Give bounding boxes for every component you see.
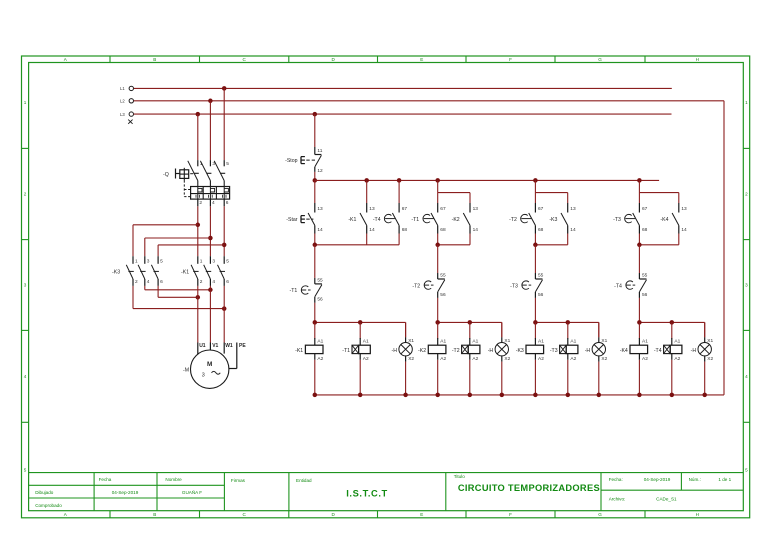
wire -T2 contact column (534, 193, 536, 203)
svg-text:13: 13 (570, 206, 576, 212)
wire branch -K2 tap down (437, 180, 439, 192)
svg-text:-K1: -K1 (348, 217, 356, 223)
bottom return bus (315, 394, 724, 396)
svg-text:Fecha: Fecha (99, 477, 112, 482)
svg-text:12: 12 (317, 168, 323, 174)
node bottom bus (533, 393, 538, 398)
svg-text:4: 4 (745, 374, 748, 379)
branch -K4 top sub-bus (639, 192, 678, 194)
svg-text:Firmas: Firmas (231, 478, 246, 483)
wire Star column (314, 180, 316, 203)
contactor K3 power contact pole 3-4 (144, 256, 146, 264)
svg-text:14: 14 (570, 227, 576, 233)
svg-text:56: 56 (642, 292, 648, 298)
svg-text:X2: X2 (707, 356, 713, 362)
svg-text:2: 2 (200, 279, 203, 285)
svg-text:55: 55 (440, 272, 446, 278)
svg-text:4: 4 (24, 374, 27, 379)
svg-text:68: 68 (642, 227, 648, 233)
svg-text:-K1: -K1 (295, 348, 303, 354)
svg-text:Núm.:: Núm.: (689, 477, 701, 482)
timer coil -T1 (359, 322, 361, 338)
contactor coil -K4 (638, 322, 640, 338)
wire T1 contact to coil bus (314, 303, 316, 323)
svg-text:F: F (509, 57, 512, 62)
svg-text:56: 56 (440, 292, 446, 298)
node bottom bus (313, 393, 318, 398)
wire to K3 pole3 (145, 237, 211, 239)
svg-text:6: 6 (160, 279, 163, 285)
svg-text:W1: W1 (225, 343, 233, 349)
breaker Q1 pole 2 contact (209, 160, 211, 166)
wire T4 contact to rejoin (398, 234, 400, 245)
svg-text:E: E (420, 57, 423, 62)
svg-text:14: 14 (681, 227, 687, 233)
svg-text:-T3: -T3 (550, 348, 558, 354)
svg-text:-T1: -T1 (290, 288, 298, 294)
pushbutton S0 -Stop (NC 11-12) (314, 147, 316, 155)
terminal L2 (129, 99, 133, 103)
wire K3 out4 (144, 286, 146, 290)
wire K1 contact column (366, 180, 368, 203)
svg-text:X2: X2 (504, 356, 510, 362)
svg-text:CIRCUITO TEMPORIZADORES: CIRCUITO TEMPORIZADORES (458, 483, 600, 493)
wire K1 out2 to motor U1 (197, 286, 199, 343)
svg-text:3: 3 (24, 283, 27, 288)
breaker Q1 thermal element pole 3 (223, 187, 225, 200)
terminal L1 (129, 86, 133, 90)
wire branch2 down (437, 245, 439, 273)
svg-text:L1: L1 (120, 86, 125, 91)
svg-text:A1: A1 (674, 339, 680, 345)
svg-text:14: 14 (473, 227, 479, 233)
svg-text:4: 4 (147, 279, 150, 285)
wire L2 to breaker (209, 101, 211, 160)
svg-text:Entidad: Entidad (296, 478, 312, 483)
contactor K1 power contact pole 3-4 (209, 256, 211, 264)
svg-text:X2: X2 (408, 356, 414, 362)
control bus wire (315, 179, 659, 181)
svg-text:Fecha:: Fecha: (609, 477, 623, 482)
svg-text:68: 68 (402, 227, 408, 233)
breaker Q1 pole 1 contact (197, 160, 199, 166)
svg-text:1: 1 (200, 259, 203, 265)
node tap K3 pole3 (208, 236, 213, 241)
svg-text:A2: A2 (570, 356, 576, 362)
breaker Q1 pole 3 lower pin (223, 199, 225, 206)
breaker Q1 thermal element pole 2 (209, 187, 211, 200)
node bus start (313, 178, 318, 183)
auxiliary contact -K2 (13-14) (469, 203, 471, 213)
svg-text:A2: A2 (674, 356, 680, 362)
svg-text:-K3: -K3 (112, 270, 120, 276)
svg-text:6: 6 (226, 200, 229, 206)
svg-text:67: 67 (642, 206, 648, 212)
svg-text:-T4: -T4 (654, 348, 662, 354)
svg-text:A2: A2 (317, 356, 323, 362)
svg-text:5: 5 (24, 468, 27, 473)
svg-text:Archivo:: Archivo: (609, 497, 626, 502)
wire lamp column -K3 (598, 322, 600, 337)
svg-text:13: 13 (369, 206, 375, 212)
svg-text:Dibujado: Dibujado (35, 490, 54, 495)
svg-text:A1: A1 (472, 339, 478, 345)
contactor coil -K2 (437, 322, 439, 338)
neutral mark (128, 120, 132, 124)
svg-text:1: 1 (24, 100, 27, 105)
svg-text:-K4: -K4 (620, 348, 628, 354)
node tap K3 pole5 (222, 243, 227, 248)
svg-text:H: H (696, 57, 699, 62)
svg-text:13: 13 (681, 206, 687, 212)
node K3 out2 join W (222, 306, 227, 311)
timer contact -T3 (55-56) (534, 273, 536, 279)
branch -K3 rejoin bus (534, 234, 536, 245)
wire Q1 out 4 down (209, 206, 211, 256)
svg-text:68: 68 (440, 227, 446, 233)
wire K1 out4 to motor V1 (209, 286, 211, 343)
svg-text:A1: A1 (363, 339, 369, 345)
wire to K3 pole5 (158, 244, 224, 246)
svg-text:E: E (420, 512, 423, 517)
wire Q1 out 6 down (223, 206, 225, 256)
svg-text:55: 55 (642, 272, 648, 278)
svg-text:-K1: -K1 (181, 270, 189, 276)
branch -K2 rejoin bus (437, 234, 439, 245)
timer contact -T2 (55-56) (437, 273, 439, 279)
node bottom bus (435, 393, 440, 398)
branch -K2 top sub-bus (438, 192, 470, 194)
timer coil -T2 (469, 322, 471, 338)
wire branch1 down (314, 245, 316, 278)
node L1 drop (222, 86, 227, 91)
svg-text:X2: X2 (601, 356, 607, 362)
timer contact -T1 (67-68) (437, 203, 439, 213)
svg-text:1: 1 (135, 259, 138, 265)
svg-text:5: 5 (226, 259, 229, 265)
svg-text:A2: A2 (363, 356, 369, 362)
svg-text:D: D (331, 512, 335, 517)
wire branch -K4 tap down (638, 180, 640, 192)
svg-text:04-Sep-2019: 04-Sep-2019 (644, 477, 671, 482)
wire lamp column -K4 (704, 322, 706, 337)
svg-text:-Q: -Q (163, 172, 169, 178)
svg-text:3: 3 (202, 372, 205, 378)
svg-text:13: 13 (317, 206, 323, 212)
svg-text:A2: A2 (642, 356, 648, 362)
contactor K3 power contact pole 5-6 (157, 256, 159, 264)
node tap K3 pole1 (196, 223, 201, 228)
svg-text:2: 2 (199, 200, 202, 206)
svg-text:1: 1 (745, 100, 748, 105)
svg-text:14: 14 (369, 227, 375, 233)
svg-text:1 de 1: 1 de 1 (718, 477, 731, 482)
svg-text:-T2: -T2 (509, 217, 517, 223)
svg-text:68: 68 (538, 227, 544, 233)
svg-text:3: 3 (147, 259, 150, 265)
svg-text:Titulo: Titulo (454, 474, 466, 479)
svg-text:-K4: -K4 (660, 217, 668, 223)
svg-text:A1: A1 (317, 339, 323, 345)
breaker Q1 pole 2 lower pin (209, 199, 211, 206)
svg-text:A2: A2 (440, 356, 446, 362)
node L3 drop (196, 112, 201, 117)
auxiliary contact -K4 (13-14) (678, 203, 680, 213)
wire K3 out6 (157, 286, 159, 297)
wire Q1 out 2 down (197, 206, 199, 256)
svg-text:6: 6 (226, 279, 229, 285)
svg-text:-T2: -T2 (412, 283, 420, 289)
node L3 control tap (313, 112, 318, 117)
branch -K3 coil bus (535, 321, 598, 323)
wire K1 out6 to motor W1 (223, 286, 225, 343)
svg-text:D: D (331, 57, 335, 62)
timer contact -T3 (67-68) (638, 203, 640, 213)
svg-text:G: G (598, 57, 602, 62)
node K3 out4 join V (208, 288, 213, 293)
branch -K3 top sub-bus (535, 192, 567, 194)
branch -K2 coil bus (438, 321, 502, 323)
svg-text:-H: -H (585, 348, 591, 354)
contactor K3 power contact pole 1-2 (132, 256, 134, 264)
node branch tap -K4 (637, 178, 642, 183)
svg-text:-T1: -T1 (342, 348, 350, 354)
svg-text:A1: A1 (538, 339, 544, 345)
svg-text:-Stop: -Stop (285, 158, 298, 164)
svg-text:-K3: -K3 (516, 348, 524, 354)
node T4 contact tap (397, 178, 402, 183)
svg-text:H: H (696, 512, 699, 517)
motor M1 PE wire (236, 343, 238, 369)
svg-text:-M: -M (183, 367, 189, 373)
svg-text:-K2: -K2 (452, 217, 460, 223)
svg-text:55: 55 (538, 272, 544, 278)
branch 1 rejoin bus (315, 244, 399, 246)
svg-text:-T1: -T1 (411, 217, 419, 223)
lamp -H (704, 322, 706, 337)
svg-text:L3: L3 (120, 112, 125, 117)
svg-text:67: 67 (402, 206, 408, 212)
contactor coil -K3 (534, 322, 536, 338)
svg-text:2: 2 (24, 192, 27, 197)
svg-text:C: C (242, 57, 246, 62)
svg-text:13: 13 (473, 206, 479, 212)
terminal L3 (129, 112, 133, 116)
branch -K4 rejoin bus (638, 234, 640, 245)
wire -T3 contact column (638, 193, 640, 203)
svg-text:A1: A1 (570, 339, 576, 345)
svg-text:F: F (509, 512, 512, 517)
svg-text:5: 5 (226, 161, 229, 167)
timer coil -T4 (671, 322, 673, 338)
svg-text:2: 2 (135, 279, 138, 285)
wire branch3 down (534, 245, 536, 273)
breaker Q1 actuator (175, 169, 177, 179)
svg-text:3: 3 (212, 259, 215, 265)
branch -K4 coil bus (639, 321, 704, 323)
wire -K3 contact column (567, 193, 569, 203)
motor M1 (191, 350, 229, 388)
wire L1 to breaker (223, 88, 225, 160)
wire lamp column -K2 (501, 322, 503, 337)
svg-text:-H: -H (691, 348, 697, 354)
auxiliary contact -K3 (13-14) (567, 203, 569, 213)
svg-text:A1: A1 (642, 339, 648, 345)
svg-text:V1: V1 (212, 343, 218, 349)
svg-text:-H: -H (392, 348, 398, 354)
svg-text:-K2: -K2 (418, 348, 426, 354)
svg-text:M: M (207, 361, 212, 368)
node branch tap -K3 (533, 178, 538, 183)
breaker Q1 pole 3 contact (223, 160, 225, 166)
svg-text:I.S.T.C.T: I.S.T.C.T (346, 489, 388, 499)
wire branch4 down (638, 245, 640, 273)
node K1 contact tap (364, 178, 369, 183)
svg-text:-Star: -Star (286, 217, 298, 223)
svg-text:-H: -H (488, 348, 494, 354)
lamp -H (598, 322, 600, 337)
svg-text:-K3: -K3 (549, 217, 557, 223)
lamp -H (501, 322, 503, 337)
svg-text:A: A (64, 57, 68, 62)
wire L3 horizontal (134, 113, 672, 115)
svg-text:4: 4 (212, 200, 215, 206)
svg-text:C: C (242, 512, 246, 517)
wire L2 horizontal (134, 100, 724, 102)
svg-text:Nombre: Nombre (165, 477, 182, 482)
svg-text:A2: A2 (538, 356, 544, 362)
wire -T1 contact column (437, 193, 439, 203)
wire L3 to breaker (197, 114, 199, 160)
node L2 drop (208, 99, 213, 104)
svg-text:5: 5 (745, 468, 748, 473)
wire to K3 pole1 (133, 224, 198, 226)
wire K3 out2 (132, 286, 134, 309)
svg-text:GUAÑA F: GUAÑA F (182, 489, 202, 495)
svg-text:4: 4 (212, 279, 215, 285)
svg-text:-T4: -T4 (614, 283, 622, 289)
svg-text:04-Sep-2019: 04-Sep-2019 (112, 490, 139, 495)
timer contact T4 (67-68) (398, 203, 400, 213)
svg-text:14: 14 (317, 227, 323, 233)
wire lamp column -K1 (405, 322, 407, 337)
svg-text:56: 56 (538, 292, 544, 298)
auxiliary contact K1 (13-14) (366, 203, 368, 213)
svg-text:5: 5 (160, 259, 163, 265)
wire branch -K3 tap down (534, 180, 536, 192)
svg-text:67: 67 (440, 206, 446, 212)
branch -K1 coil bus (315, 321, 406, 323)
breaker Q1 thermal box (191, 187, 230, 200)
svg-text:L2: L2 (120, 99, 125, 104)
contactor K1 power contact pole 1-2 (197, 256, 199, 264)
wire K1 contact to rejoin (366, 234, 368, 245)
wire L2 right rail down (723, 101, 725, 395)
timer contact -T4 (55-56) (638, 273, 640, 279)
svg-text:55: 55 (317, 277, 323, 283)
svg-text:2: 2 (745, 192, 748, 197)
timer coil -T3 (567, 322, 569, 338)
svg-text:-T2: -T2 (452, 348, 460, 354)
svg-text:A: A (64, 512, 68, 517)
svg-text:B: B (153, 57, 156, 62)
svg-text:A2: A2 (472, 356, 478, 362)
node branch tap -K2 (435, 178, 440, 183)
svg-text:CADe_S1: CADe_S1 (656, 497, 677, 502)
wire L1 horizontal (134, 87, 672, 89)
wire -K2 contact column (469, 193, 471, 203)
svg-text:PE: PE (239, 343, 246, 349)
wire L3 tap down to Stop (314, 114, 316, 147)
contactor coil -K1 (314, 322, 316, 338)
lamp -H (405, 322, 407, 337)
svg-text:A1: A1 (440, 339, 446, 345)
title block (29, 472, 744, 474)
wire T4 contact column (398, 180, 400, 203)
node K3 out6 join U (196, 295, 201, 300)
svg-text:-T4: -T4 (373, 217, 381, 223)
svg-text:67: 67 (538, 206, 544, 212)
timer contact -T1 (55-56) (314, 278, 316, 284)
svg-text:11: 11 (317, 148, 322, 154)
svg-text:U1: U1 (199, 343, 206, 349)
breaker Q1 thermal element pole 1 (197, 187, 199, 200)
node bottom bus (637, 393, 642, 398)
svg-text:-T3: -T3 (613, 217, 621, 223)
wire Star to rejoin (314, 234, 316, 245)
wire -K4 contact column (678, 193, 680, 203)
svg-text:Comprobado: Comprobado (35, 503, 62, 508)
pushbutton S1 -Star (NO 13-14) (314, 203, 316, 213)
svg-text:-T3: -T3 (510, 283, 518, 289)
svg-text:B: B (153, 512, 156, 517)
timer contact -T2 (67-68) (534, 203, 536, 213)
contactor K1 power contact pole 5-6 (223, 256, 225, 264)
svg-text:G: G (598, 512, 602, 517)
svg-text:3: 3 (745, 283, 748, 288)
wire Stop to bus (314, 172, 316, 181)
svg-text:56: 56 (317, 297, 323, 303)
breaker Q1 pole 1 lower pin (197, 199, 199, 206)
